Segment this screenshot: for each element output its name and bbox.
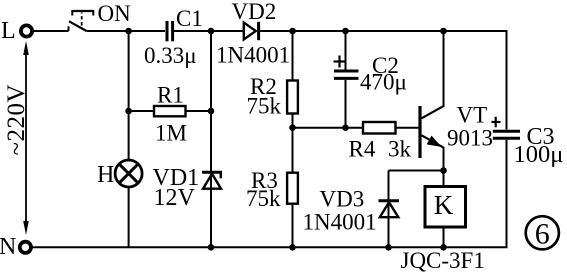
svg-text:VD2: VD2 xyxy=(232,0,277,24)
node J5 collector branch xyxy=(440,28,447,35)
svg-text:JQC-3F1: JQC-3F1 xyxy=(401,248,485,273)
wire R4 to base xyxy=(396,127,420,129)
svg-text:~220V: ~220V xyxy=(3,84,30,156)
node bottom VD3 xyxy=(385,244,392,251)
wire lamp branch lower xyxy=(128,187,130,248)
node bottom VD1 xyxy=(208,244,215,251)
svg-text:75k: 75k xyxy=(246,186,281,211)
transistor VT emitter with arrow xyxy=(422,135,444,147)
svg-text:R4: R4 xyxy=(349,137,376,162)
zener diode VD1 xyxy=(202,171,222,174)
wire C2 top lead xyxy=(345,31,347,70)
figure number 6 xyxy=(526,216,559,249)
wire base node to R4 xyxy=(293,127,364,129)
node J2 top of VD1 branch xyxy=(208,28,215,35)
svg-text:3k: 3k xyxy=(388,137,412,162)
lamp H xyxy=(115,160,142,187)
svg-text:ON: ON xyxy=(98,1,132,26)
node R1 right xyxy=(208,108,215,115)
resistor R2 xyxy=(287,81,298,114)
wire R2 top lead xyxy=(292,31,294,81)
wire switch to C1 xyxy=(87,30,166,32)
svg-text:9013: 9013 xyxy=(447,126,493,151)
wire relay bottom lead xyxy=(443,227,445,247)
svg-text:N: N xyxy=(0,234,16,260)
svg-text:75k: 75k xyxy=(247,94,282,119)
resistor R1 xyxy=(154,106,186,116)
svg-text:C1: C1 xyxy=(176,6,203,31)
svg-text:12V: 12V xyxy=(154,185,196,211)
resistor R3 xyxy=(287,173,298,204)
wire L to switch xyxy=(33,30,69,32)
capacitor C3 xyxy=(493,130,520,133)
wire VD1 branch xyxy=(210,31,212,247)
svg-text:470μ: 470μ xyxy=(360,70,407,95)
svg-text:L: L xyxy=(1,18,16,44)
svg-text:0.33μ: 0.33μ xyxy=(144,43,197,68)
svg-text:1M: 1M xyxy=(155,121,187,146)
wire right rail lower xyxy=(506,140,508,248)
svg-text:VD3: VD3 xyxy=(320,187,365,212)
svg-text:1N4001: 1N4001 xyxy=(303,210,377,235)
relay K xyxy=(425,187,466,228)
node R1 left xyxy=(125,108,132,115)
capacitor C2 xyxy=(334,70,359,73)
svg-text:VT: VT xyxy=(457,103,488,128)
polarity + of C3 xyxy=(492,121,501,123)
terminal L xyxy=(21,25,32,36)
diode VD3 xyxy=(379,199,400,202)
wire C1 to VD2 xyxy=(174,30,244,32)
wire VD2 to top-right corner xyxy=(259,30,507,32)
svg-text:R1: R1 xyxy=(157,83,184,108)
resistor R4 xyxy=(363,122,396,134)
svg-text:100μ: 100μ xyxy=(514,141,564,168)
terminal N xyxy=(20,242,31,253)
node J3 top of R2 branch xyxy=(289,28,296,35)
wire R3 bottom lead xyxy=(292,204,294,248)
node C2 bottom xyxy=(342,124,349,131)
diode VD2 xyxy=(244,23,256,40)
wire R1 right lead xyxy=(186,110,212,112)
wire VD3 branch xyxy=(388,171,390,248)
svg-text:H: H xyxy=(97,162,114,188)
switch ON (push-button) xyxy=(69,10,94,31)
wire R2 to R3 xyxy=(292,114,294,173)
capacitor C1 xyxy=(166,21,169,41)
svg-text:6: 6 xyxy=(535,217,550,250)
node J1 top of lamp branch xyxy=(125,28,132,35)
wire emitter node to VD3 branch xyxy=(389,170,444,172)
wire C2 bottom lead xyxy=(345,80,347,128)
transistor VT collector xyxy=(422,106,445,119)
wire relay top lead xyxy=(443,171,445,187)
polarity + of C2 xyxy=(334,60,346,62)
node bottom relay xyxy=(440,244,447,251)
node emitter junction xyxy=(440,167,447,174)
node J4 top of C2 branch xyxy=(342,28,349,35)
wire R1 left lead xyxy=(129,110,154,112)
svg-text:1N4001: 1N4001 xyxy=(216,43,290,68)
node bottom R3 xyxy=(289,244,296,251)
transistor VT base bar xyxy=(418,106,421,158)
wire lamp branch upper xyxy=(128,31,130,161)
wire right rail upper xyxy=(506,30,508,130)
wire bottom rail xyxy=(32,246,508,248)
svg-text:K: K xyxy=(434,190,454,220)
node base divider xyxy=(289,124,296,131)
dimension arrow 220V xyxy=(25,50,27,226)
